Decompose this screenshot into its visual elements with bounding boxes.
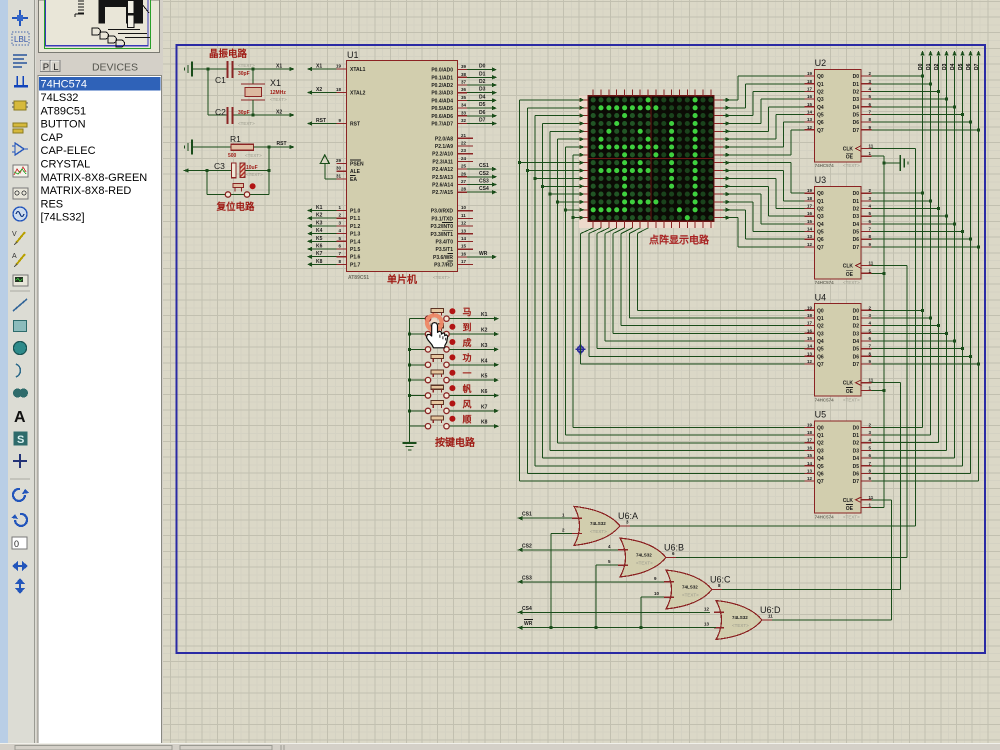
svg-text:<TEXT>: <TEXT> [636, 561, 653, 566]
svg-text:11: 11 [869, 261, 874, 266]
svg-text:<TEXT>: <TEXT> [238, 63, 255, 68]
svg-text:V: V [12, 231, 17, 238]
svg-text:26: 26 [461, 171, 467, 176]
wire U4 D5 to bus [872, 348, 963, 350]
latch U2 74HC574 [815, 70, 862, 162]
svg-text:D2: D2 [853, 207, 860, 213]
svg-text:CS4: CS4 [522, 606, 532, 612]
or-gate U6:C 74LS32 [666, 570, 712, 609]
wire matrix row R13 to U3 [723, 200, 805, 232]
wire U4 D2 to bus [872, 325, 939, 327]
svg-text:74HC574: 74HC574 [815, 514, 835, 519]
svg-text:帆: 帆 [463, 383, 472, 394]
svg-text:P3.3/INT1: P3.3/INT1 [430, 232, 453, 238]
keypad left bus wire [409, 319, 411, 427]
red dot marker button 1 [449, 308, 455, 314]
svg-text:17: 17 [807, 438, 813, 443]
svg-text:OE: OE [846, 506, 854, 512]
svg-text:A: A [14, 409, 26, 426]
svg-text:D2: D2 [934, 63, 940, 70]
wire U3 D3 to bus [872, 215, 947, 217]
svg-text:P2.0/A8: P2.0/A8 [435, 136, 453, 142]
wire K2 [449, 332, 499, 336]
svg-text:Q6: Q6 [817, 471, 824, 477]
svg-text:11: 11 [869, 378, 874, 383]
svg-text:Q0: Q0 [817, 425, 824, 431]
ground (OE) [884, 155, 908, 171]
svg-text:13: 13 [461, 228, 467, 233]
wire button row [207, 194, 269, 196]
svg-text:Q4: Q4 [817, 105, 824, 111]
svg-text:19: 19 [807, 305, 813, 310]
svg-text:10: 10 [654, 591, 660, 596]
svg-text:D4: D4 [853, 105, 860, 111]
wire U4 D7 to bus [872, 363, 979, 365]
wire U4 D1 to bus [872, 317, 931, 319]
U4 pin 19 Q0 [805, 309, 815, 311]
wire CS3 to gate input [518, 580, 664, 584]
svg-text:P3.7/RD: P3.7/RD [434, 263, 453, 269]
push button K8 [410, 425, 426, 427]
svg-text:P1.0: P1.0 [350, 209, 361, 215]
wire K6 [449, 393, 499, 397]
wire matrix col 4 to U4 [613, 228, 805, 333]
U2 pin 16 Q3 [805, 98, 815, 100]
svg-text:D5: D5 [958, 63, 964, 70]
wire U2 D1 to bus [872, 83, 931, 85]
svg-text:19: 19 [807, 188, 813, 193]
svg-text:RST: RST [316, 118, 326, 124]
U1 pin 15 P3.5/T1 [458, 248, 474, 250]
U1 pin 31 EA [337, 178, 347, 180]
svg-text:36: 36 [461, 87, 467, 92]
svg-text:21: 21 [461, 133, 467, 138]
push button K6 [410, 395, 426, 397]
svg-text:X1: X1 [270, 78, 281, 88]
svg-text:Q3: Q3 [817, 214, 824, 220]
wire matrix row L14 join [565, 208, 584, 212]
svg-text:D1: D1 [853, 199, 860, 205]
svg-text:U2: U2 [815, 58, 827, 68]
U3 pin 6 D4 [862, 223, 872, 225]
U4 pin 5 D3 [862, 332, 872, 334]
svg-text:<TEXT>: <TEXT> [682, 593, 699, 598]
overview preview drawing [99, 0, 143, 28]
U1 pin 5 P1.4 [337, 240, 347, 242]
wire U2 D5 to bus [872, 113, 963, 115]
U5 pin 7 D5 [862, 465, 872, 467]
wire U3 D4 to bus [872, 223, 955, 225]
svg-text:RST: RST [350, 122, 360, 128]
wire C3 row with left terminal [184, 168, 270, 172]
svg-text:K1: K1 [316, 205, 323, 211]
bus wire D7 [872, 51, 981, 482]
svg-text:74LS32: 74LS32 [682, 585, 698, 590]
svg-text:MATRIX-8X8-GREEN: MATRIX-8X8-GREEN [41, 172, 148, 184]
svg-text:P2.4/A12: P2.4/A12 [432, 167, 453, 173]
U4 pin 11 CLK [862, 382, 872, 384]
wire U2 D0 to bus [872, 75, 923, 77]
mcu U1 AT89C51 body [347, 61, 458, 272]
svg-text:16: 16 [807, 328, 813, 333]
svg-text:CLK: CLK [843, 381, 854, 387]
bottom status bar [0, 744, 1000, 750]
svg-text:13: 13 [807, 234, 813, 239]
U3 pin 18 Q1 [805, 200, 815, 202]
svg-text:18: 18 [336, 87, 342, 92]
U2 pin 3 D1 [862, 83, 872, 85]
svg-text:K8: K8 [481, 420, 488, 426]
red dot marker button 4 [449, 354, 455, 360]
U3 pin 3 D1 [862, 200, 872, 202]
bus wire D2 [872, 51, 941, 443]
wire matrix row R9 to U3 [723, 168, 805, 201]
svg-text:D3: D3 [853, 97, 860, 103]
svg-text:LBL: LBL [14, 35, 29, 44]
svg-text:D7: D7 [853, 245, 860, 251]
wire: vertical gnd to C2 [207, 69, 209, 115]
svg-text:<TEXT>: <TEXT> [270, 97, 287, 102]
wire X1 net top [208, 67, 295, 71]
U5 pin 9 D7 [862, 480, 872, 482]
svg-text:U3: U3 [815, 175, 827, 185]
U1 pin 13 P3.3/INT1 [458, 233, 474, 235]
U1 pin 35 P0.4/AD4 [458, 99, 468, 101]
wire matrix row L2 to U5 [535, 113, 805, 465]
svg-text:P2.5/A13: P2.5/A13 [432, 175, 453, 181]
bus wire D3 [872, 51, 949, 451]
svg-text:L: L [53, 62, 58, 73]
U4 pin 16 Q3 [805, 332, 815, 334]
svg-text:27: 27 [461, 179, 467, 184]
U4 pin 12 Q7 [805, 363, 815, 365]
svg-text:18: 18 [807, 79, 813, 84]
U2 pin 8 D6 [862, 121, 872, 123]
wire matrix row L15 join [573, 215, 585, 219]
svg-text:<TEXT>: <TEXT> [843, 514, 860, 519]
U5 pin 8 D6 [862, 472, 872, 474]
wire K5 [449, 378, 499, 382]
svg-text:74HC574: 74HC574 [41, 79, 87, 91]
svg-text:D7: D7 [974, 63, 980, 70]
svg-text:D1: D1 [853, 316, 860, 322]
U1 pin 18 XTAL2 [337, 92, 347, 94]
U5 pin 17 Q2 [805, 442, 815, 444]
wire matrix row L13 join [558, 200, 585, 204]
svg-text:AT89C51: AT89C51 [41, 105, 87, 117]
svg-text:Q3: Q3 [817, 97, 824, 103]
svg-text:WR: WR [524, 621, 533, 627]
wire matrix row L7 to U5 [573, 153, 805, 428]
svg-text:Q1: Q1 [817, 433, 824, 439]
svg-text:按键电路: 按键电路 [435, 436, 476, 449]
svg-text:到: 到 [463, 321, 472, 332]
svg-text:Q3: Q3 [817, 448, 824, 454]
overview window [38, 0, 162, 54]
U5 pin 19 Q0 [805, 426, 815, 428]
U4 pin 8 D6 [862, 355, 872, 357]
wire U2 D4 to bus [872, 106, 955, 108]
svg-text:Q4: Q4 [817, 222, 824, 228]
wire matrix row R14 to U3 [723, 208, 805, 240]
svg-text:CS2: CS2 [522, 543, 532, 549]
svg-text:P1.5: P1.5 [350, 247, 361, 253]
red dot marker (button) [250, 183, 256, 189]
svg-text:32: 32 [461, 118, 467, 123]
U2 pin 6 D4 [862, 106, 872, 108]
svg-text:U4: U4 [815, 292, 827, 302]
push button K2 [410, 333, 426, 335]
svg-text:EA: EA [350, 177, 357, 183]
svg-text:D4: D4 [950, 63, 956, 70]
svg-text:17: 17 [461, 259, 467, 264]
svg-text:Q5: Q5 [817, 347, 824, 353]
svg-text:74HC574: 74HC574 [815, 280, 835, 285]
svg-text:10uF: 10uF [246, 165, 258, 171]
svg-text:13: 13 [704, 622, 710, 627]
svg-text:<TEXT>: <TEXT> [732, 623, 749, 628]
wire U2 D7 to bus [872, 129, 979, 131]
or-gate U6:D 74LS32 [716, 601, 762, 640]
or-gate U6:B 74LS32 [620, 538, 666, 577]
U3 pin 16 Q3 [805, 215, 815, 217]
svg-text:Q2: Q2 [817, 89, 824, 95]
svg-text:35: 35 [461, 95, 467, 100]
svg-text:12: 12 [807, 242, 813, 247]
svg-text:11: 11 [869, 144, 874, 149]
svg-text:Q2: Q2 [817, 441, 824, 447]
svg-text:11: 11 [768, 614, 773, 619]
U4 pin 2 D0 [862, 309, 872, 311]
wire U6:C pin10 from WR [641, 597, 664, 628]
U4 pin 15 Q4 [805, 340, 815, 342]
svg-text:P1.4: P1.4 [350, 239, 361, 245]
svg-text:Q0: Q0 [817, 74, 824, 80]
svg-text:P: P [43, 62, 49, 73]
svg-text:Q5: Q5 [817, 230, 824, 236]
svg-text:马: 马 [463, 307, 472, 317]
svg-text:15: 15 [807, 219, 813, 224]
svg-text:<TEXT>: <TEXT> [245, 153, 262, 158]
svg-text:74LS32: 74LS32 [636, 553, 652, 558]
wire U2 D2 to bus [872, 90, 939, 92]
svg-text:D4: D4 [853, 456, 860, 462]
svg-text:22: 22 [461, 141, 467, 146]
U3 pin 17 Q2 [805, 208, 815, 210]
svg-text:D3: D3 [853, 214, 860, 220]
wire WR to U6:D pin13 [518, 626, 716, 630]
svg-text:Q2: Q2 [817, 324, 824, 330]
U4 pin 17 Q2 [805, 325, 815, 327]
U6:B input stubs [618, 549, 628, 551]
svg-text:37: 37 [461, 80, 467, 85]
svg-text:X2: X2 [316, 87, 322, 93]
svg-text:12MHz: 12MHz [270, 90, 286, 96]
svg-text:Q6: Q6 [817, 354, 824, 360]
push button K1 [410, 318, 426, 320]
svg-text:<TEXT>: <TEXT> [590, 529, 607, 534]
U3 pin 4 D2 [862, 208, 872, 210]
wire matrix row L10 join [535, 176, 585, 180]
matrix pin stubs [592, 90, 594, 96]
wire matrix row L12 join [550, 192, 584, 196]
svg-text:P3.5/T1: P3.5/T1 [435, 247, 453, 253]
U2 pin 7 D5 [862, 113, 872, 115]
svg-text:15: 15 [461, 244, 467, 249]
U6:C input stubs [664, 581, 674, 583]
wire CS2 to gate input [518, 548, 618, 552]
svg-text:39: 39 [461, 64, 467, 69]
svg-text:D6: D6 [853, 237, 860, 243]
svg-text:CS2: CS2 [479, 171, 489, 177]
svg-text:BUTTON: BUTTON [41, 119, 86, 131]
svg-text:CS4: CS4 [479, 186, 489, 192]
U1 pin 29 PSEN [337, 163, 347, 165]
svg-text:14: 14 [807, 461, 813, 466]
svg-text:顺: 顺 [463, 415, 472, 425]
wire U2 D6 to bus [872, 121, 971, 123]
wire matrix row R1 to U2 [723, 84, 805, 110]
svg-text:K3: K3 [316, 220, 323, 226]
svg-text:OE: OE [846, 155, 854, 161]
svg-text:XTAL1: XTAL1 [350, 67, 366, 73]
cursor highlight ring [427, 315, 442, 330]
U3 pin 1 OE [862, 272, 872, 274]
svg-text:CS1: CS1 [479, 163, 489, 169]
svg-text:P3.1/TXD: P3.1/TXD [431, 216, 453, 222]
U1 pin 23 P2.2/A10 [458, 153, 474, 155]
svg-text:74LS32: 74LS32 [732, 615, 748, 620]
svg-text:AT89C51: AT89C51 [348, 275, 369, 281]
U3 pin 15 Q4 [805, 223, 815, 225]
svg-text:30pF: 30pF [238, 110, 250, 116]
wire matrix row R7 to U2 [723, 130, 805, 157]
U3 pin 8 D6 [862, 238, 872, 240]
svg-text:15: 15 [807, 453, 813, 458]
left window edge strip [0, 0, 8, 750]
svg-text:P2.1/A9: P2.1/A9 [435, 144, 453, 150]
svg-text:P1.7: P1.7 [350, 262, 361, 268]
svg-text:K8: K8 [316, 259, 323, 265]
wire matrix col 6 to U4 [629, 228, 804, 318]
wire matrix row R3 to U2 [723, 99, 805, 126]
svg-text:[74LS32]: [74LS32] [41, 212, 85, 224]
svg-text:P3.0/RXD: P3.0/RXD [431, 209, 454, 215]
svg-text:CS3: CS3 [522, 575, 532, 581]
node: junction at gnd/C1 [207, 68, 210, 71]
svg-text:Q2: Q2 [817, 207, 824, 213]
overview view area (blue) [45, 0, 148, 46]
svg-text:WR: WR [479, 251, 488, 257]
svg-text:K7: K7 [481, 404, 488, 410]
U3 pin 5 D3 [862, 215, 872, 217]
svg-text:D2: D2 [853, 89, 860, 95]
svg-text:P1.6: P1.6 [350, 255, 361, 261]
svg-text:19: 19 [807, 71, 813, 76]
svg-text:K1: K1 [481, 312, 488, 318]
svg-text:K2: K2 [481, 328, 488, 334]
wire CS4 to gate input [518, 610, 710, 614]
U3 pin 2 D0 [862, 192, 872, 194]
wire CLK U6:B [872, 265, 907, 267]
svg-text:XTAL2: XTAL2 [350, 91, 366, 97]
wire matrix row L5 to U5 [558, 137, 805, 443]
svg-text:风: 风 [463, 399, 472, 409]
svg-text:点阵显示电路: 点阵显示电路 [649, 234, 710, 247]
wire matrix row L8 join [520, 161, 585, 165]
svg-text:18: 18 [807, 313, 813, 318]
U3 pin 14 Q5 [805, 231, 815, 233]
svg-text:74HC574: 74HC574 [815, 163, 835, 168]
U6:A output wire to CLK [620, 149, 916, 526]
keypad ground [403, 426, 417, 450]
svg-text:31: 31 [336, 173, 342, 178]
bus wire D4 [872, 51, 957, 459]
wire matrix col 1 to U4 [589, 228, 805, 356]
svg-text:D6: D6 [853, 354, 860, 360]
svg-text:P0.6/AD6: P0.6/AD6 [431, 114, 453, 120]
origin marker [576, 344, 586, 354]
svg-text:D1: D1 [479, 71, 486, 77]
U5 pin 16 Q3 [805, 449, 815, 451]
svg-text:11: 11 [869, 495, 874, 500]
svg-text:P0.3/AD3: P0.3/AD3 [431, 91, 453, 97]
svg-text:CLK: CLK [843, 264, 854, 270]
svg-text:12: 12 [461, 221, 467, 226]
wire matrix row R8 to U3 [723, 161, 805, 194]
wire U6:A pin2 from WR [551, 534, 572, 628]
svg-text:13: 13 [807, 351, 813, 356]
svg-text:晶振电路: 晶振电路 [209, 48, 248, 60]
U1 pin 10 P3.0/RXD [458, 210, 474, 212]
U4 pin 4 D2 [862, 325, 872, 327]
svg-text:D6: D6 [853, 471, 860, 477]
svg-text:16: 16 [807, 94, 813, 99]
svg-text:K7: K7 [316, 251, 323, 257]
svg-text:ALE: ALE [350, 169, 361, 175]
svg-text:P0.0/AD0: P0.0/AD0 [431, 68, 453, 74]
svg-text:PSEN: PSEN [350, 162, 364, 168]
svg-text:15: 15 [807, 102, 813, 107]
U1 pin 1 P1.0 [337, 210, 347, 212]
wire matrix row L11 join [543, 184, 585, 188]
svg-text:D3: D3 [942, 63, 948, 70]
svg-text:D4: D4 [853, 222, 860, 228]
latch U4 74HC574 [815, 304, 862, 396]
svg-text:14: 14 [461, 236, 467, 241]
svg-text:P3.6/WR: P3.6/WR [433, 255, 453, 261]
U4 pin 18 Q1 [805, 317, 815, 319]
dot matrix black face [588, 96, 714, 222]
U2 pin 19 Q0 [805, 75, 815, 77]
svg-text:17: 17 [807, 321, 813, 326]
ground (reset circuit) [185, 140, 232, 155]
push button (reset) [225, 184, 249, 198]
red dot marker button 2 [449, 324, 455, 330]
node junction C3 left branch [206, 169, 209, 172]
svg-text:D4: D4 [479, 94, 486, 100]
svg-text:16: 16 [807, 445, 813, 450]
svg-text:D4: D4 [853, 339, 860, 345]
svg-text:11: 11 [461, 213, 466, 218]
U1 pin 6 P1.5 [337, 248, 347, 250]
devices list box [38, 76, 162, 744]
push button K7 [410, 410, 426, 412]
U2 pin 13 Q6 [805, 121, 815, 123]
U5 pin 13 Q6 [805, 472, 815, 474]
svg-text:D7: D7 [853, 362, 860, 368]
U4 pin 3 D1 [862, 317, 872, 319]
